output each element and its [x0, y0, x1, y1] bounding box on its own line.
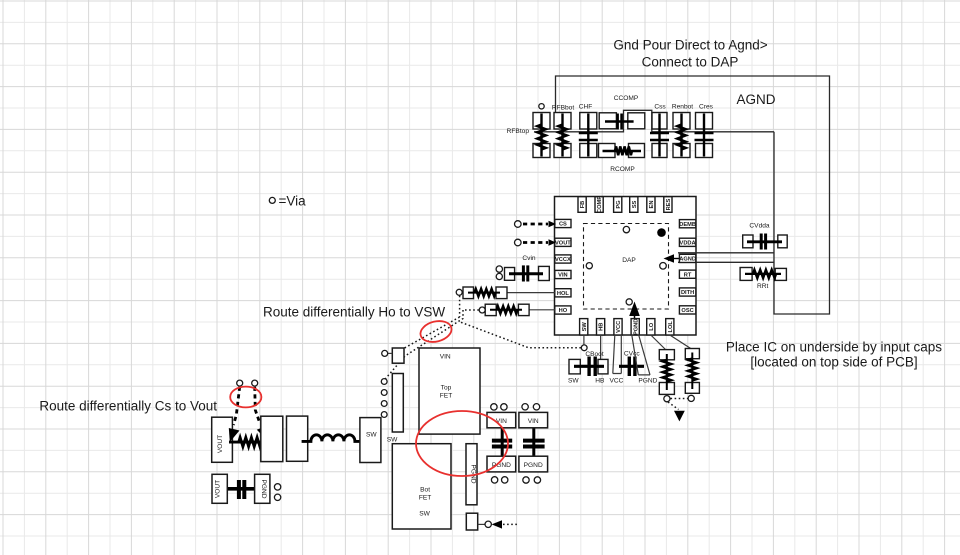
label Cvin: [522, 255, 536, 262]
resistor RHO: [485, 304, 529, 315]
via RLO: [664, 396, 670, 402]
capacitor CBoot: [569, 357, 608, 377]
via HOL: [456, 289, 462, 295]
svg-text:DITH: DITH: [681, 290, 694, 296]
svg-text:VCCX: VCCX: [555, 257, 571, 263]
arrow dotted down: [668, 402, 685, 421]
wire HB pin stub: [600, 335, 602, 359]
via Cin B 2: [533, 404, 539, 410]
via RLOL: [688, 395, 694, 401]
pin LO: [647, 319, 655, 335]
svg-text:Bot: Bot: [420, 487, 430, 494]
wire VCC trace: [613, 335, 622, 374]
label SW strip: [387, 437, 398, 444]
svg-text:=Via: =Via: [279, 194, 307, 209]
component PGND strip: [466, 444, 477, 505]
text place IC note: [726, 340, 942, 370]
arrow AGND to DAP: [664, 254, 680, 263]
svg-text:SS: SS: [632, 201, 638, 209]
label RRt: [757, 283, 769, 290]
via Cin B 1: [522, 404, 528, 410]
svg-text:LO: LO: [649, 322, 655, 330]
svg-text:Gnd Pour Direct to Agnd>: Gnd Pour Direct to Agnd>: [613, 38, 767, 53]
arrow PGND to DAP: [629, 302, 640, 336]
via SW strip 4: [381, 412, 387, 418]
svg-text:VOUT: VOUT: [555, 240, 571, 246]
component SW strip: [392, 374, 403, 433]
svg-text:SW: SW: [582, 322, 588, 332]
svg-text:CVdda: CVdda: [749, 223, 769, 230]
pin LOL: [666, 319, 674, 335]
svg-text:AGND: AGND: [679, 257, 696, 263]
svg-text:RCOMP: RCOMP: [610, 166, 635, 173]
label VCC pad: [609, 377, 623, 384]
wire AGND pin to pour top: [678, 252, 774, 254]
pin VDDA: [679, 238, 695, 246]
arrow dotted bottom: [492, 520, 518, 528]
label Cres: [699, 104, 714, 111]
resistor RHOL: [463, 287, 507, 299]
svg-text:SW: SW: [419, 511, 430, 518]
via Cin A 3: [491, 477, 497, 483]
svg-text:VIN: VIN: [558, 273, 567, 279]
component VOUT pad lower: [212, 474, 227, 503]
via Cs 1: [237, 380, 243, 386]
via DAP 1: [623, 226, 629, 232]
svg-text:FET: FET: [440, 393, 452, 400]
component pad block 2: [261, 416, 283, 461]
pin HOL: [555, 289, 571, 297]
svg-text:RFBtop: RFBtop: [507, 128, 530, 135]
text route Ho note: [263, 305, 445, 320]
wire AGND pin to pour bottom: [678, 261, 774, 263]
via Cout 1: [274, 484, 280, 490]
wire dotted diff pair B: [385, 310, 463, 380]
svg-text:VOUT: VOUT: [215, 480, 222, 498]
wire Cs dashed left: [229, 387, 240, 442]
via Cout 2: [274, 494, 280, 500]
label CVdda: [749, 223, 769, 230]
capacitor Cvin: [505, 265, 550, 281]
resistor Rsense shunt: [229, 437, 269, 446]
component SW pad block: [360, 418, 381, 463]
svg-text:PGND: PGND: [524, 462, 543, 469]
via DAP 4: [660, 263, 667, 270]
wire Cs dashed right: [255, 387, 268, 441]
node DAP: [584, 224, 669, 310]
svg-text:SW: SW: [568, 377, 579, 384]
transistor Bot FET: [392, 444, 451, 529]
capacitor CCOMP: [599, 113, 645, 130]
svg-text:PGND: PGND: [260, 479, 267, 498]
via Cin B 4: [534, 477, 540, 483]
resistor Renbot: [673, 113, 690, 158]
resistor RFBtop: [533, 113, 550, 158]
component pad block 3: [287, 416, 308, 461]
svg-text:CVcc: CVcc: [624, 351, 640, 358]
svg-text:RFBbot: RFBbot: [552, 105, 575, 112]
text Gnd Pour note: [613, 38, 767, 70]
label CVcc: [624, 351, 640, 358]
via DAP 2 filled: [657, 228, 666, 237]
label RCOMP: [610, 166, 635, 173]
pin CS: [555, 219, 571, 227]
pin DEMB: [679, 220, 696, 228]
pin COMP: [595, 196, 603, 213]
wire LOL stub: [670, 335, 692, 349]
label PGND pad: [638, 377, 657, 384]
wire AGND bus with jog over CCOMP: [534, 110, 774, 132]
svg-text:EN: EN: [649, 201, 655, 209]
pin HB: [597, 319, 605, 335]
highlight ellipse Ho route: [418, 318, 453, 345]
wire HO: [528, 309, 555, 311]
capacitor Cin A: [487, 412, 516, 472]
label RFBtop: [507, 128, 530, 135]
capacitor Cres: [695, 113, 714, 158]
wire VOUT dashed: [515, 239, 557, 246]
svg-text:VCC: VCC: [616, 321, 622, 333]
text route Cs note: [39, 399, 217, 414]
pin RT: [679, 270, 695, 278]
svg-text:PGND: PGND: [638, 377, 657, 384]
component PGND pad lower: [255, 474, 270, 503]
svg-text:OSC: OSC: [681, 308, 693, 314]
capacitor Cin B: [519, 412, 548, 472]
inductor L1: [302, 435, 362, 442]
component SW pad small: [392, 348, 404, 363]
via SW: [581, 345, 587, 351]
svg-text:VDDA: VDDA: [680, 240, 696, 246]
wire dotted diff pair A: [404, 317, 460, 348]
svg-text:SW: SW: [366, 431, 377, 438]
pin HO: [555, 306, 571, 314]
svg-text:[located on top side of PCB]: [located on top side of PCB]: [750, 355, 917, 370]
label CBoot: [585, 351, 603, 358]
svg-text:RRt: RRt: [757, 283, 769, 290]
via SW strip 2: [381, 390, 387, 396]
resistor RFBbot: [554, 113, 571, 158]
svg-text:LOL: LOL: [668, 321, 674, 333]
label CCOMP: [614, 95, 639, 102]
via Cin B 3: [523, 477, 529, 483]
via SW strip 1: [381, 379, 387, 385]
svg-text:RES: RES: [666, 198, 672, 210]
svg-text:RT: RT: [684, 272, 692, 278]
capacitor CVdda: [743, 234, 788, 250]
svg-text:AGND: AGND: [737, 92, 776, 107]
svg-text:Cres: Cres: [699, 104, 714, 111]
svg-text:VOUT: VOUT: [217, 435, 224, 453]
highlight ellipse Cs: [230, 387, 261, 408]
highlight ellipse input caps: [416, 411, 508, 476]
svg-text:HB: HB: [599, 323, 605, 331]
via Cs 2: [252, 380, 258, 386]
via SW pad: [382, 350, 393, 356]
svg-text:VCC: VCC: [609, 377, 623, 384]
capacitor Cout: [227, 480, 254, 499]
label Css: [654, 104, 666, 111]
capacitor CHF: [579, 113, 598, 158]
wire CS dashed: [515, 221, 557, 228]
pin OSC: [679, 306, 695, 314]
pin EN: [647, 197, 655, 213]
svg-text:PG: PG: [616, 200, 622, 209]
via DAP 5: [626, 299, 632, 305]
resistor RLOL: [685, 349, 699, 394]
pin RES: [664, 197, 672, 213]
wire SW pin stub: [583, 335, 585, 345]
via DAP 3: [586, 263, 592, 269]
pin VIN: [555, 270, 571, 278]
label SW pad: [568, 377, 579, 384]
svg-text:Cvin: Cvin: [522, 255, 536, 262]
wire dotted HOL via down: [459, 296, 461, 317]
svg-text:CCOMP: CCOMP: [614, 95, 639, 102]
svg-text:CHF: CHF: [579, 104, 593, 111]
label AGND: [737, 92, 776, 107]
via Cvin 2: [496, 273, 502, 279]
via SW strip 3: [381, 401, 387, 407]
svg-text:HB: HB: [595, 377, 605, 384]
via Cin A 4: [502, 477, 508, 483]
pin VOUT: [555, 238, 572, 246]
svg-text:FB: FB: [580, 201, 586, 209]
resistor RRt: [740, 268, 786, 281]
svg-text:HOL: HOL: [557, 291, 570, 297]
via Cin A 1: [491, 404, 497, 410]
label RFBbot: [552, 105, 575, 112]
svg-text:PGND: PGND: [633, 319, 639, 335]
svg-text:Route differentially Cs to Vou: Route differentially Cs to Vout: [39, 399, 217, 414]
capacitor Css: [650, 113, 669, 158]
label Renbot: [672, 104, 693, 111]
capacitor CVcc: [619, 357, 644, 377]
wire PGND trace: [632, 335, 650, 375]
label HB pad: [595, 377, 605, 384]
transistor Top FET: [419, 348, 480, 434]
svg-text:DEMB: DEMB: [679, 222, 696, 228]
pin DITH: [679, 288, 695, 296]
svg-text:HO: HO: [559, 308, 568, 314]
component pad bottom small: [466, 513, 477, 530]
pin PG: [614, 197, 622, 213]
svg-text:CS: CS: [559, 222, 567, 228]
resistor RLO: [659, 350, 674, 395]
via Cvin 1: [496, 266, 502, 272]
wire dotted HO via left: [463, 309, 479, 311]
svg-text:VIN: VIN: [528, 418, 539, 425]
via RFBtop top: [539, 104, 544, 109]
component VOUT pad block: [212, 417, 233, 462]
svg-text:Connect to DAP: Connect to DAP: [642, 55, 739, 70]
svg-text:CBoot: CBoot: [585, 351, 603, 358]
resistor RCOMP: [599, 144, 645, 158]
pin SW: [580, 319, 588, 335]
via bottom: [478, 521, 492, 527]
wire dotted vias link: [671, 398, 688, 400]
svg-text:SW: SW: [387, 437, 398, 444]
svg-text:Place IC on underside by input: Place IC on underside by input caps: [726, 340, 942, 355]
via Cin A 2: [501, 404, 507, 410]
pin VCCX: [555, 255, 571, 263]
pin PGND: [631, 319, 639, 335]
pin SS: [630, 197, 638, 213]
IC U1 body: [555, 197, 697, 336]
wire dotted to SW via: [461, 322, 581, 348]
svg-text:Top: Top: [441, 385, 452, 392]
svg-text:Css: Css: [654, 104, 666, 111]
pin AGND: [679, 254, 696, 262]
pin VCC: [614, 319, 622, 335]
pin FB: [578, 197, 586, 213]
wire HOL: [507, 292, 555, 294]
svg-text:VIN: VIN: [440, 354, 451, 361]
via HO: [479, 307, 485, 313]
text via legend: [269, 194, 306, 209]
wire LO stub: [651, 335, 666, 350]
svg-text:Route differentially Ho to VSW: Route differentially Ho to VSW: [263, 305, 445, 320]
svg-text:DAP: DAP: [622, 257, 636, 264]
svg-text:Renbot: Renbot: [672, 104, 693, 111]
svg-text:FET: FET: [419, 495, 431, 502]
net AGND pour outline: [556, 76, 830, 314]
svg-text:COMP: COMP: [597, 196, 603, 213]
label CHF: [579, 104, 593, 111]
